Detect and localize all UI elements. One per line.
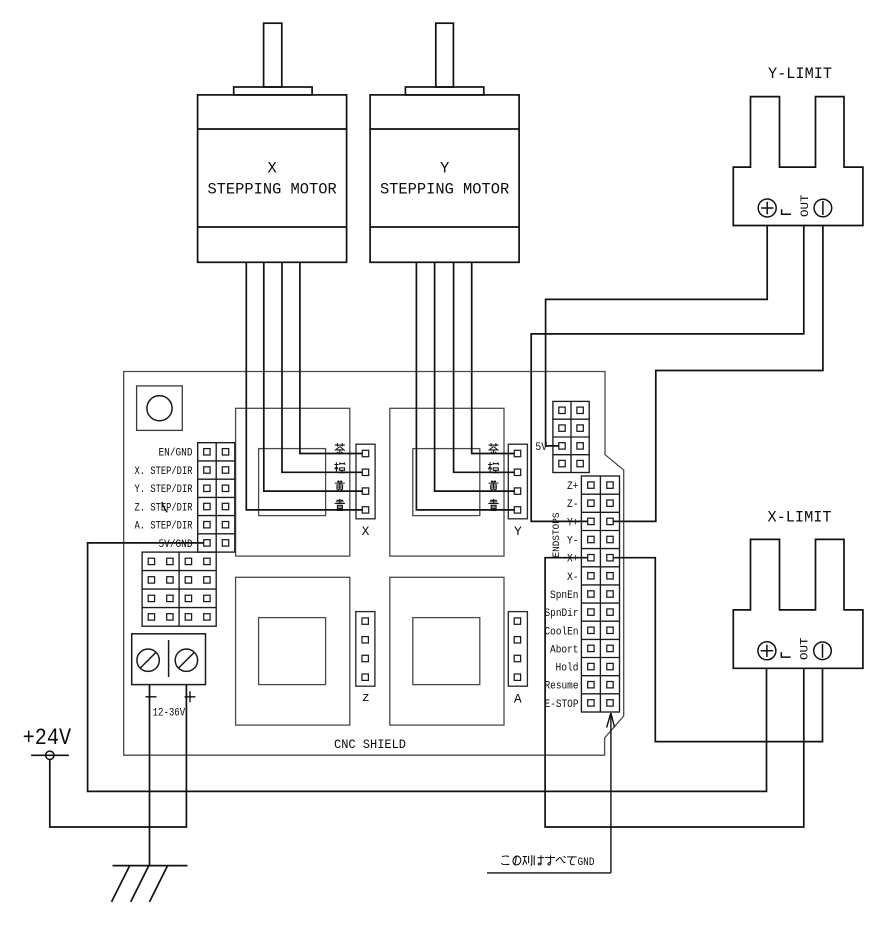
4x4 grid pins: [148, 558, 210, 620]
ENDSTOPS header pins: [588, 482, 614, 706]
Y stepping motor body: [370, 95, 519, 262]
wire Y-LIMIT output to Y+ gnd pin: [613, 226, 823, 522]
wire color labels Y driver (cha/tou/ki/ao): [489, 443, 499, 454]
X stepping motor shaft: [264, 23, 282, 87]
Y driver 4-pin connector: [508, 444, 527, 519]
GND note arrow: [607, 713, 615, 873]
GND note text: [502, 855, 577, 865]
X stepping motor body: [198, 95, 347, 262]
svg-text:Z-: Z-: [567, 499, 579, 511]
Y stepping motor flange: [405, 87, 483, 95]
A driver 4-pin connector: [508, 612, 527, 687]
svg-text:Z+: Z+: [567, 481, 579, 493]
X stepping motor flange: [234, 87, 312, 95]
svg-text:Z. STEP/DIR: Z. STEP/DIR: [135, 502, 193, 514]
Y-LIMIT output terminal: [814, 199, 832, 217]
svg-text:X: X: [362, 524, 370, 539]
svg-text:Y-LIMIT: Y-LIMIT: [768, 65, 832, 83]
wire +24V to plus terminal: [50, 685, 187, 827]
svg-text:OUT: OUT: [800, 637, 812, 660]
svg-text:X: X: [267, 160, 277, 178]
svg-text:+24V: +24V: [23, 725, 72, 751]
5V header grid: [553, 401, 589, 472]
svg-text:SpnEn: SpnEn: [550, 590, 579, 602]
wire Y-LIMIT OUT to Y+ pin: [531, 226, 804, 522]
ENDSTOPS pin labels: [545, 481, 579, 711]
wire minus terminal to ground: [149, 685, 151, 866]
svg-text:X-: X-: [567, 572, 579, 584]
svg-text:Y. STEP/DIR: Y. STEP/DIR: [135, 484, 193, 496]
4x4 pin grid: [142, 552, 216, 626]
svg-text:CoolEn: CoolEn: [545, 626, 579, 638]
wire color labels X driver (cha/tou/ki/ao): [335, 443, 345, 454]
wire X-LIMIT plus to 5V/GND pin: [88, 543, 767, 792]
Z driver 4-pin connector: [356, 612, 375, 687]
svg-text:5V/GND: 5V/GND: [159, 539, 193, 551]
X driver socket: [236, 408, 350, 556]
X-LIMIT switch outline: [733, 539, 863, 668]
Y-LIMIT plus terminal: [758, 199, 776, 217]
Y motor wire blue: [416, 262, 514, 510]
Y motor wire brown: [472, 262, 515, 453]
X motor wire orange: [282, 262, 362, 472]
X motor wire blue: [246, 262, 362, 510]
reset button circle: [147, 396, 172, 421]
wire X-LIMIT OUT to X+ pin: [545, 558, 804, 827]
svg-text:Resume: Resume: [545, 681, 579, 693]
svg-text:Y: Y: [514, 524, 522, 539]
5V header pins: [559, 407, 584, 467]
svg-text:X-LIMIT: X-LIMIT: [768, 509, 832, 527]
svg-text:STEPPING MOTOR: STEPPING MOTOR: [380, 180, 509, 198]
stray mark over Z.STEP label: [162, 502, 167, 513]
svg-text:z: z: [362, 690, 370, 705]
svg-text:A. STEP/DIR: A. STEP/DIR: [135, 521, 193, 533]
Y-LIMIT switch outline: [733, 97, 863, 226]
pin labels EN/GND block: [135, 448, 193, 551]
EN/GND header pins: [204, 449, 229, 547]
Y driver socket: [390, 408, 504, 556]
+24V node circle: [46, 751, 54, 759]
X motor wire yellow: [264, 262, 363, 491]
GND note underline: [487, 872, 611, 874]
power terminal block: [132, 634, 206, 685]
screw terminal left: [137, 649, 159, 671]
svg-text:12-36V: 12-36V: [153, 707, 186, 719]
Y-LIMIT L mark: [782, 209, 791, 214]
+24V terminal stub: [31, 754, 69, 756]
X motor wire brown: [300, 262, 362, 453]
svg-text:GND: GND: [578, 857, 595, 869]
svg-text:X. STEP/DIR: X. STEP/DIR: [135, 466, 193, 478]
svg-text:OUT: OUT: [800, 194, 812, 217]
Y motor wire orange: [454, 262, 515, 472]
wire X-LIMIT output to X+ gnd pin: [613, 558, 822, 742]
ground symbol: [112, 866, 188, 902]
A driver socket: [390, 577, 504, 725]
Y motor wire yellow: [435, 262, 515, 491]
svg-text:Y: Y: [440, 160, 450, 178]
EN/GND pin header grid: [198, 443, 235, 552]
svg-text:Y-: Y-: [567, 536, 579, 548]
svg-text:Abort: Abort: [550, 644, 579, 656]
svg-text:X+: X+: [567, 554, 579, 566]
svg-text:CNC SHIELD: CNC SHIELD: [334, 737, 406, 752]
ENDSTOPS header grid: [581, 476, 619, 712]
X-LIMIT L mark: [781, 652, 790, 657]
Y stepping motor label: [380, 160, 509, 199]
svg-text:Hold: Hold: [556, 663, 579, 675]
Z driver socket: [236, 577, 350, 725]
reset button square: [137, 386, 183, 431]
Y stepping motor shaft: [436, 23, 454, 87]
X driver 4-pin connector: [356, 444, 375, 519]
minus label: [146, 696, 157, 698]
screw terminal right: [175, 649, 197, 671]
svg-text:E-STOP: E-STOP: [545, 699, 579, 711]
plus label: [185, 691, 196, 702]
svg-text:ENDSTOPS: ENDSTOPS: [551, 513, 563, 558]
svg-text:EN/GND: EN/GND: [159, 448, 193, 460]
svg-text:A: A: [514, 691, 522, 706]
svg-text:SpnDir: SpnDir: [545, 608, 579, 620]
X-LIMIT plus terminal: [758, 642, 776, 660]
svg-text:Y+: Y+: [567, 517, 579, 529]
CNC shield board outline: [124, 372, 624, 756]
svg-text:STEPPING MOTOR: STEPPING MOTOR: [207, 180, 336, 198]
X stepping motor label: [207, 160, 336, 199]
wire Y-LIMIT plus to 5V pin: [546, 226, 768, 446]
X-LIMIT output terminal: [814, 642, 832, 660]
